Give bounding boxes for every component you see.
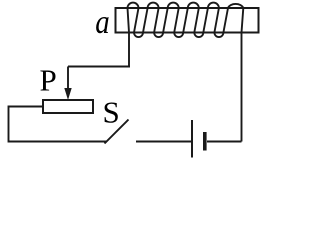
switch blade bbox=[105, 120, 129, 144]
wiper arrow into potentiometer bbox=[67, 67, 69, 91]
coil core (rectangle) bbox=[116, 8, 259, 33]
svg-text:a: a bbox=[95, 3, 109, 41]
svg-text:S: S bbox=[103, 95, 120, 130]
battery short plate (-) bbox=[203, 132, 207, 151]
wire: battery to right riser bbox=[207, 141, 242, 143]
potentiometer P body bbox=[43, 100, 93, 113]
battery long plate (+) bbox=[191, 120, 193, 158]
wire: switch to battery bbox=[136, 141, 191, 143]
coil winding bbox=[128, 3, 244, 142]
wire: top horizontal from arrow to coil left lead bbox=[68, 66, 130, 68]
wire: P left terminal, down left side, bottom run bbox=[9, 107, 108, 142]
svg-text:P: P bbox=[40, 63, 57, 98]
